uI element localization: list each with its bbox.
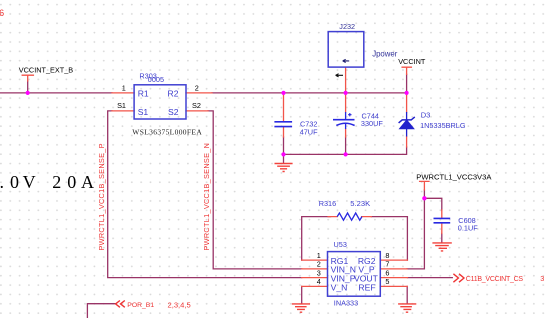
svg-text:PWRCTL1_VCC1B_SENSE_P: PWRCTL1_VCC1B_SENSE_P <box>97 143 106 250</box>
svg-text:5: 5 <box>385 277 389 286</box>
svg-text:V_N: V_N <box>331 282 348 292</box>
svg-text:3: 3 <box>317 268 321 277</box>
svg-text:J232: J232 <box>339 22 355 31</box>
svg-text:1: 1 <box>122 83 126 92</box>
svg-text:S1: S1 <box>117 101 126 110</box>
svg-text:R316: R316 <box>319 199 336 208</box>
svg-text:INA333: INA333 <box>334 299 358 308</box>
svg-text:330UF: 330UF <box>361 119 383 128</box>
svg-text:0.1UF: 0.1UF <box>458 224 478 233</box>
svg-text:Jpower: Jpower <box>372 49 398 58</box>
svg-text:2: 2 <box>52 172 61 192</box>
svg-text:47UF: 47UF <box>300 128 318 137</box>
svg-text:0005: 0005 <box>148 75 164 84</box>
svg-text:C11B_VCCINT_CS: C11B_VCCINT_CS <box>466 276 524 283</box>
svg-text:U53: U53 <box>334 240 347 249</box>
svg-text:V: V <box>23 172 36 192</box>
svg-text:VCCINT_EXT_B: VCCINT_EXT_B <box>19 66 73 75</box>
svg-text:0: 0 <box>67 172 76 192</box>
svg-text:3: 3 <box>540 274 544 283</box>
svg-text:6: 6 <box>0 8 4 18</box>
svg-text:4: 4 <box>317 277 321 286</box>
svg-text:7: 7 <box>385 260 389 269</box>
svg-text:6: 6 <box>385 268 389 277</box>
svg-text:VCCINT: VCCINT <box>398 57 426 66</box>
svg-text:WSL36375L000FEA: WSL36375L000FEA <box>132 127 202 136</box>
svg-text:2: 2 <box>317 260 321 269</box>
svg-text:5.23K: 5.23K <box>350 199 370 208</box>
svg-text:1N5335BRLG: 1N5335BRLG <box>420 121 466 130</box>
svg-text:S2: S2 <box>168 107 179 117</box>
svg-text:A: A <box>81 172 94 192</box>
svg-text:REF: REF <box>358 282 375 292</box>
svg-text:R2: R2 <box>168 89 179 99</box>
svg-text:PWRCTL1_VCC1B_SENSE_N: PWRCTL1_VCC1B_SENSE_N <box>202 143 211 251</box>
svg-text:PWRCTL1_VCC3V3A: PWRCTL1_VCC3V3A <box>416 173 492 182</box>
svg-text:0: 0 <box>10 172 19 192</box>
svg-text:S2: S2 <box>192 101 201 110</box>
svg-text:.: . <box>0 172 4 192</box>
svg-text:POR_B1: POR_B1 <box>127 302 154 309</box>
svg-text:R1: R1 <box>138 89 149 99</box>
svg-text:2,3,4,5: 2,3,4,5 <box>168 300 191 309</box>
svg-text:1: 1 <box>317 251 321 260</box>
svg-text:S1: S1 <box>138 107 149 117</box>
svg-text:2: 2 <box>195 83 199 92</box>
svg-text:D3: D3 <box>421 111 431 120</box>
svg-text:8: 8 <box>385 251 389 260</box>
